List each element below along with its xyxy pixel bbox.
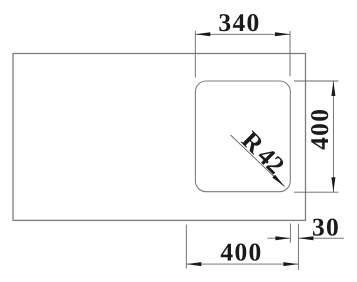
arrowhead 340 left (195, 32, 210, 36)
svg-text:30: 30 (312, 212, 340, 241)
extension line left of bottom 400 (185, 225, 187, 269)
extension line bottom of 400 (294, 191, 338, 193)
arrowhead 400 up (331, 81, 335, 96)
dimension line bottom 400 (186, 263, 298, 265)
svg-text:400: 400 (220, 237, 262, 266)
countertop outline (13, 54, 306, 221)
dimension 30 (bottom right) (267, 224, 344, 271)
dimension 400 (bottom) (186, 225, 298, 269)
extension line right of 340 (289, 31, 291, 76)
arrowhead bottom 400 right (283, 262, 298, 266)
arrowhead R42 (272, 175, 284, 187)
svg-text:340: 340 (218, 8, 260, 37)
bowl cutout (195, 81, 290, 192)
dimension line 340 (195, 33, 290, 35)
dimension line 400 vertical (332, 81, 334, 192)
extension line right of 30 / 400 (297, 224, 299, 270)
extension line top of 400 (294, 80, 338, 82)
arrowhead 30 right (points left) (298, 236, 313, 240)
extension line left of 340 (194, 31, 196, 78)
arrowhead 30 left (points right) (275, 236, 290, 240)
extension line left of 30 (289, 224, 291, 243)
svg-text:R 42: R 42 (236, 125, 290, 179)
svg-text:400: 400 (305, 108, 334, 150)
radius leader R 42 (231, 135, 285, 187)
dimension line 30 left tail (267, 237, 290, 239)
dimension line 30 right tail (298, 237, 344, 239)
arrowhead bottom 400 left (186, 262, 201, 266)
dimension 340 (top) (195, 31, 290, 78)
arrowhead 400 down (331, 177, 335, 192)
dimension 400 (right vertical) (294, 81, 338, 192)
arrowhead 340 right (275, 32, 290, 36)
